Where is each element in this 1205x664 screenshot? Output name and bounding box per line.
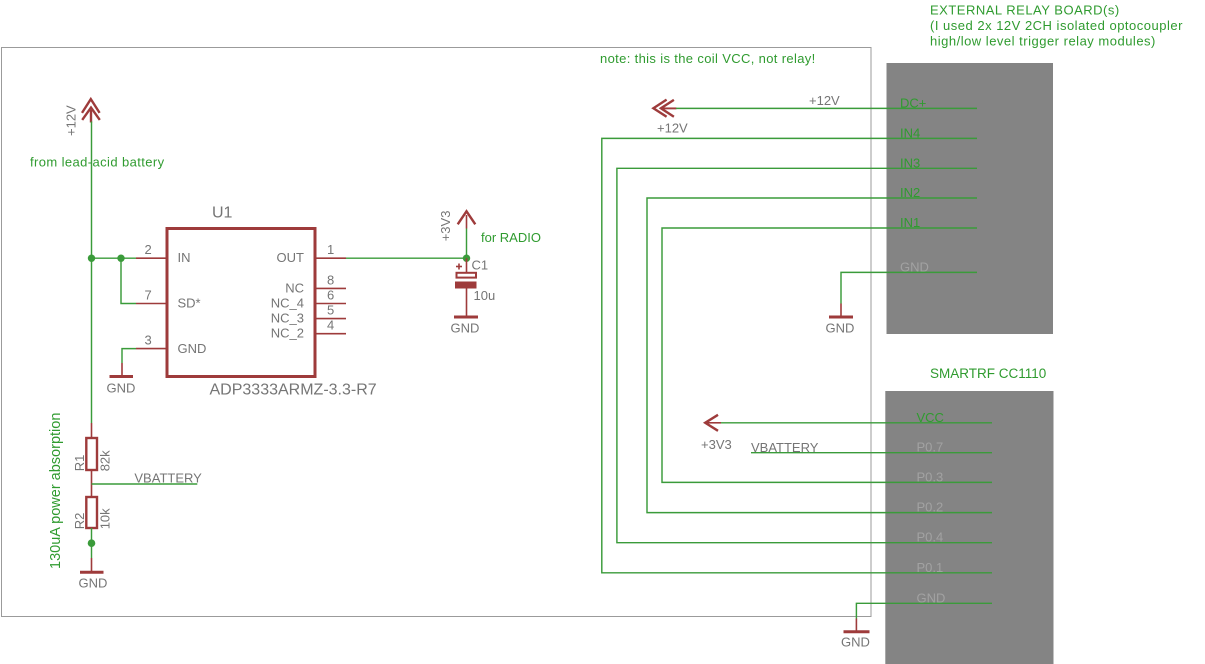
svg-text:U1: U1 [212,205,233,222]
pin 4 NC_2 [271,318,346,341]
junction node SD branch [117,255,124,262]
gnd symbol R2 [79,572,108,590]
value 82k [98,450,113,471]
pin label IN3 [900,155,920,170]
svg-text:OUT: OUT [277,250,305,265]
label +3V3 vertical [438,211,453,242]
net VBATTERY right [751,440,992,455]
cc1110 box [885,391,1053,664]
svg-text:GND: GND [451,321,480,336]
svg-text:C1: C1 [472,258,489,273]
svg-text:7: 7 [145,287,152,302]
pin label GND relay [900,259,929,274]
svg-text:GND: GND [841,635,870,650]
wire OUT to C1 [346,257,467,259]
svg-text:for RADIO: for RADIO [481,230,541,245]
net VBATTERY left [92,470,203,485]
svg-text:P0.1: P0.1 [917,560,944,575]
svg-text:10u: 10u [474,288,496,303]
junction node below R2 [88,539,96,547]
pin label P0.2 [917,500,944,515]
label +3V3 [701,437,732,452]
svg-text:+12V: +12V [657,120,688,135]
pin label P0.7 [917,440,944,455]
pin 1 OUT [277,242,346,265]
gnd symbol U1 [107,349,137,396]
value 10k [98,508,113,529]
svg-text:SMARTRF CC1110: SMARTRF CC1110 [930,366,1046,381]
value ADP3333ARMZ-3.3-R7 [210,382,377,399]
supply +3V3 arrow left-pointing [705,415,721,431]
pin label DC+ [900,95,926,110]
svg-text:5: 5 [327,303,334,318]
gnd symbol C1 [451,317,480,336]
label +12V below arrow [657,120,688,135]
svg-text:EXTERNAL RELAY BOARD(s): EXTERNAL RELAY BOARD(s) [930,3,1120,18]
svg-text:2: 2 [145,242,152,257]
net IN3 [617,168,992,542]
pin label IN2 [900,185,920,200]
svg-text:R2: R2 [72,513,87,530]
wire SD* branch [121,258,136,303]
resistor R1 [86,423,97,497]
svg-text:GND: GND [826,320,855,335]
svg-text:P0.7: P0.7 [917,440,944,455]
svg-text:VCC: VCC [917,410,944,425]
svg-text:6: 6 [327,288,334,303]
svg-text:NC_2: NC_2 [271,326,304,341]
text 130uA power absorption [48,413,64,569]
pin 7 SD* [136,287,201,310]
pin 5 NC_3 [271,303,346,326]
svg-text:+12V: +12V [809,93,840,108]
net IN2 [647,198,992,513]
svg-text:DC+: DC+ [900,95,926,110]
svg-text:GND: GND [107,381,136,396]
pin label IN1 [900,215,920,230]
supply +12V symbol top-left [82,99,100,122]
pin 3 GND [136,332,206,355]
svg-text:IN: IN [178,250,191,265]
wire +12V vertical to R1 [91,122,93,424]
net DC+ wire [676,107,977,109]
net cc1110 GND [856,603,992,630]
title SMARTRF CC1110 [930,366,1046,381]
gnd symbol relay [826,317,855,335]
resistor R2 [86,497,97,558]
net relay GND [841,272,977,315]
svg-text:VBATTERY: VBATTERY [134,470,202,485]
schematic frame [2,48,872,617]
svg-text:from lead-acid battery: from lead-acid battery [30,155,165,170]
net VCC wire [721,422,992,424]
svg-text:130uA power absorption: 130uA power absorption [48,413,64,569]
svg-text:SD*: SD* [178,296,201,311]
label U1 [212,205,233,222]
svg-text:NC_4: NC_4 [271,296,304,311]
label R2 [72,513,87,530]
pin 6 NC_4 [271,288,346,311]
svg-text:high/low level trigger relay m: high/low level trigger relay modules) [930,34,1156,49]
supply +3V3 symbol [458,211,476,228]
pin 8 NC [285,272,346,295]
svg-text:8: 8 [327,272,334,287]
pin 2 IN [136,242,191,265]
svg-text:(I used 2x 12V 2CH isolated op: (I used 2x 12V 2CH isolated optocoupler [930,18,1183,33]
text note coil VCC [600,51,816,66]
svg-text:note: this is the coil VCC, no: note: this is the coil VCC, not relay! [600,51,816,66]
svg-text:+12V: +12V [64,105,79,136]
svg-text:+3V3: +3V3 [701,437,732,452]
supply +12V arrow left-pointing [653,100,676,117]
value 10u [474,288,496,303]
svg-text:GND: GND [178,341,207,356]
svg-text:+3V3: +3V3 [438,211,453,242]
svg-text:82k: 82k [98,450,113,471]
label C1 [472,258,489,273]
svg-text:P0.2: P0.2 [917,500,944,515]
svg-text:3: 3 [145,332,152,347]
relay board box [887,63,1054,334]
svg-text:P0.3: P0.3 [917,469,944,484]
wire R2 to gnd [91,558,93,571]
svg-text:GND: GND [79,576,108,591]
IC U1 body [167,229,315,377]
pin label P0.1 [917,560,944,575]
label +12V at relay box [809,93,840,108]
text from lead-acid battery [30,155,165,170]
svg-text:10k: 10k [98,508,113,529]
junction node at C1 [463,255,470,262]
junction node at IN [88,255,95,262]
wire junction to pin IN [92,257,137,259]
pin label IN4 [900,125,920,140]
net IN1 [662,228,992,482]
svg-text:P0.4: P0.4 [917,530,944,545]
label +12V vertical [64,105,79,136]
svg-text:ADP3333ARMZ-3.3-R7: ADP3333ARMZ-3.3-R7 [210,382,377,399]
text EXTERNAL RELAY BOARD(s) heading [930,3,1183,49]
pin label VCC [917,410,944,425]
net IN4 [602,138,992,572]
gnd symbol cc1110 [841,632,870,650]
wire +3V3 to junction [466,229,468,259]
svg-text:NC: NC [285,280,304,295]
svg-text:4: 4 [327,318,334,333]
capacitor C1 [455,258,477,316]
svg-text:1: 1 [327,242,334,257]
pin label GND cc1110 [917,590,946,605]
pin label P0.4 [917,530,944,545]
text for RADIO [481,230,541,245]
svg-text:NC_3: NC_3 [271,311,304,326]
pin label P0.3 [917,469,944,484]
label R1 [72,455,87,472]
svg-text:R1: R1 [72,455,87,472]
